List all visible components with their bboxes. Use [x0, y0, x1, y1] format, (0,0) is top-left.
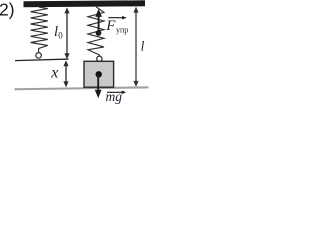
svg-text:0: 0 [58, 31, 63, 41]
svg-text:x: x [50, 65, 58, 82]
svg-text:mg: mg [106, 89, 123, 104]
svg-text:упр: упр [116, 25, 128, 34]
svg-text:2): 2) [0, 0, 15, 19]
svg-text:F: F [105, 18, 116, 34]
svg-text:l: l [141, 38, 145, 53]
